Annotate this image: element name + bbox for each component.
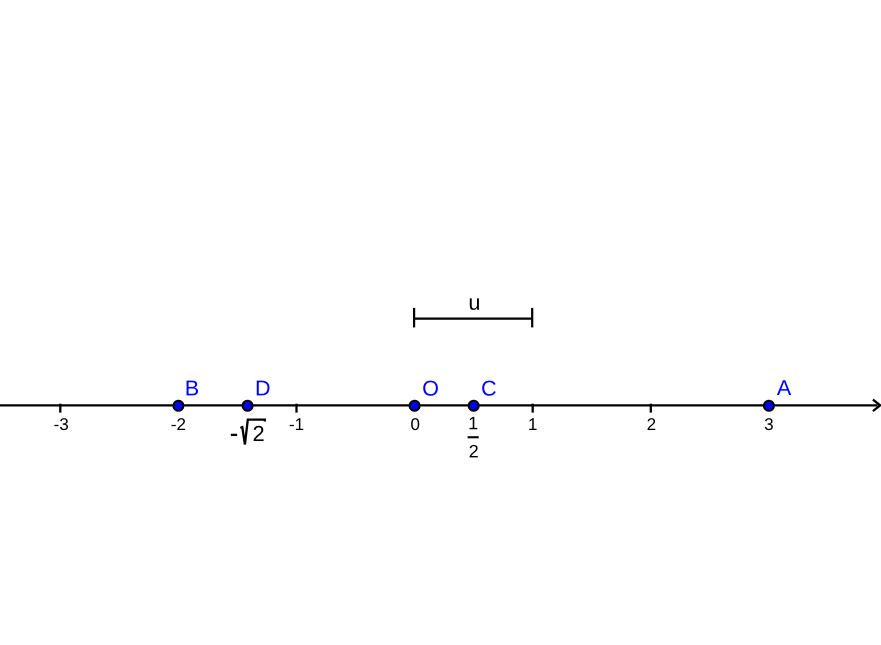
label C <box>482 381 496 396</box>
unit segment u: horizontal bar <box>414 318 532 320</box>
fraction 1/2: bar <box>468 436 479 438</box>
label -sqrt(2): radical sign <box>240 420 264 445</box>
tick label -2 <box>172 418 186 430</box>
tick 3 <box>768 404 770 412</box>
tick label 0 <box>411 418 419 430</box>
tick -3 <box>59 404 61 413</box>
tick -1 <box>295 404 297 413</box>
tick 1 <box>532 404 534 413</box>
wire: number line axis <box>0 404 878 406</box>
label O <box>423 381 438 396</box>
tick -2 <box>177 404 179 412</box>
point C at 1/2 <box>469 401 479 411</box>
tick label 1 <box>529 418 536 430</box>
point D at -sqrt(2) <box>243 401 253 411</box>
unit segment u: left end tick <box>413 308 415 328</box>
fraction 1/2: numerator 1 <box>470 417 478 429</box>
label -sqrt(2): digit 2 <box>254 426 264 441</box>
tick label 3 <box>765 418 773 430</box>
label D <box>257 381 270 396</box>
unit segment u: right end tick <box>531 308 533 328</box>
tick 2 <box>650 404 652 413</box>
label A <box>777 380 791 395</box>
label B <box>187 381 198 396</box>
arrowhead of axis <box>874 400 880 410</box>
label -sqrt(2): minus sign <box>231 434 237 436</box>
point A at 3 <box>764 401 774 411</box>
point O at 0 <box>410 401 420 411</box>
tick label -1 <box>290 418 304 430</box>
label u <box>470 298 479 310</box>
fraction 1/2: denominator 2 <box>470 445 478 458</box>
tick label 2 <box>648 418 656 430</box>
tick label -3 <box>54 418 68 430</box>
point B at -2 <box>173 401 183 411</box>
